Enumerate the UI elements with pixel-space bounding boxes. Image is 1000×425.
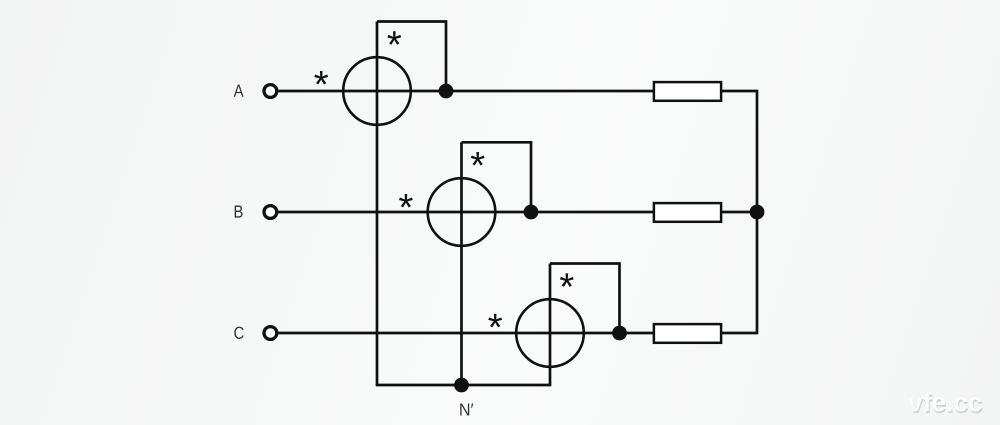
terminal B — [264, 206, 277, 219]
polarity mark W1 current coil (ink 13.8x13.5) — [314, 71, 328, 85]
label node Nprime (ink 13.0x12.0) — [460, 403, 473, 415]
junction W2 voltage tap on line B — [524, 205, 539, 220]
polarity mark W2 current coil (ink 13.8x13.5) — [399, 194, 413, 208]
terminal A — [264, 85, 277, 98]
wire neutral bus — [376, 384, 552, 387]
wattmeter W3 — [516, 299, 584, 367]
wire right bus — [756, 90, 759, 335]
wire phase B — [278, 211, 757, 214]
junction node N' on neutral bus — [454, 378, 469, 393]
junction W3 voltage tap on line C — [612, 326, 627, 341]
polarity mark W3 voltage coil (ink 13.8x13.5) — [560, 273, 574, 287]
terminal C — [264, 327, 277, 340]
polarity mark W3 current coil (ink 13.8x13.5) — [488, 314, 502, 328]
watermark vfe.cc — [908, 392, 981, 411]
resistor load R2 — [654, 203, 721, 222]
wattmeter W1 — [343, 57, 411, 125]
watermark vfe.cc shadow — [909, 394, 982, 413]
wire W1 voltage coil vertical — [376, 22, 379, 386]
wire phase A — [278, 90, 757, 93]
wire W1 voltage loop top — [377, 22, 446, 92]
wire W2 voltage loop top — [462, 142, 532, 212]
resistor load R1 — [654, 82, 721, 101]
label phase B (ink 7.9x12.0) — [235, 206, 243, 218]
polarity mark W2 voltage coil (ink 13.8x13.5) — [471, 152, 485, 166]
wire W3 voltage coil vertical — [549, 264, 552, 386]
wire W3 voltage loop top — [550, 264, 620, 334]
polarity mark W1 voltage coil (ink 13.8x13.5) — [387, 31, 401, 45]
wire phase C — [278, 332, 757, 335]
wattmeter W2 — [428, 178, 496, 246]
wire W2 voltage coil vertical — [460, 142, 463, 385]
junction right bus at line B — [750, 205, 765, 220]
junction W1 voltage tap on line A — [439, 84, 454, 99]
label phase A (ink 9.9x12.0) — [234, 85, 244, 97]
resistor load R3 — [654, 324, 721, 343]
label phase C (ink 9.4x12.4) — [234, 327, 243, 339]
